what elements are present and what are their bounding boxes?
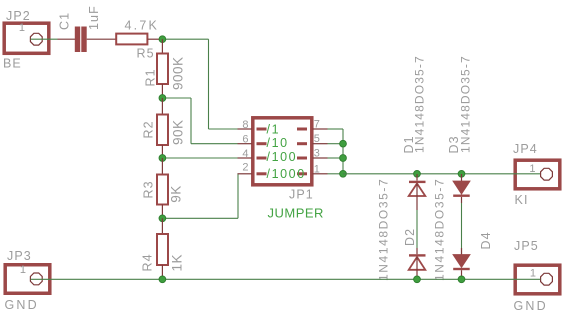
svg-text:JUMPER: JUMPER [268,206,324,221]
svg-text:1N4148DO35-7: 1N4148DO35-7 [459,55,473,153]
svg-text:1N4148DO35-7: 1N4148DO35-7 [433,178,447,281]
svg-text:JP5: JP5 [514,239,539,253]
svg-text:6: 6 [242,134,248,146]
junction pin3 row [340,155,347,162]
svg-text:5: 5 [314,133,320,145]
wire JP2 pin to C1 [31,38,58,40]
svg-text:1N4148DO35-7: 1N4148DO35-7 [413,55,427,153]
diode D4 [453,248,470,279]
svg-text:1: 1 [19,22,25,34]
svg-text:R3: R3 [142,180,156,198]
svg-text:2: 2 [242,161,248,173]
svg-text:1: 1 [20,264,26,276]
svg-text:/1000: /1000 [267,167,306,181]
connector JP2 [4,23,49,53]
resistor R5 [116,34,162,45]
svg-text:JP2: JP2 [6,9,31,23]
junction D3 top [458,170,465,177]
svg-text:/100: /100 [267,150,298,164]
svg-text:4.7K: 4.7K [125,19,160,33]
jumper JP1 body [253,118,312,185]
junction D1 top [414,170,421,177]
JP1 pin 6 [238,134,267,146]
svg-text:7: 7 [314,118,320,130]
connector JP3 [5,265,50,294]
wire JP1 pins 7,5,3,1 common bus [328,129,344,174]
diode D1 [409,174,426,210]
svg-text:BE: BE [3,57,22,71]
junction pin5 row [340,140,347,147]
svg-text:8: 8 [242,119,248,131]
wire D1 to D2 [416,210,418,248]
JP1 pin 5 [297,133,328,145]
svg-text:1: 1 [529,163,535,175]
svg-text:C1: C1 [58,12,72,30]
svg-text:D4: D4 [479,231,493,249]
connector JP5 [515,265,560,294]
wire node A to JP1 pin 8 [162,39,237,129]
resistor R3 [157,158,168,218]
svg-text:1: 1 [530,268,536,280]
resistor R1 [157,39,168,98]
JP1 pin 7 [297,118,328,130]
svg-text:90K: 90K [171,119,186,145]
diode D3 [453,174,470,203]
svg-text:JP1: JP1 [289,188,314,202]
JP1 pin 2 [238,161,267,175]
svg-text:GND: GND [514,299,548,313]
wire output rail to JP4 [343,173,540,175]
svg-text:/10: /10 [267,136,289,150]
svg-text:R4: R4 [141,253,155,271]
svg-text:4: 4 [242,148,248,160]
resistor R2 [157,98,168,158]
connector JP4 [515,160,560,189]
svg-text:900K: 900K [171,56,186,90]
node B junction (R1/R2) [159,95,166,102]
node D junction (R3/R4) [159,215,166,222]
svg-text:1K: 1K [170,254,185,272]
wire D3 to D4 [461,203,463,254]
svg-text:1: 1 [314,163,320,175]
JP1 pin 3 [297,148,328,160]
svg-text:JP4: JP4 [513,142,538,156]
junction pin1 row [340,170,347,177]
JP1 pin 8 [238,119,267,131]
node C junction (R2/R3) [159,155,166,162]
svg-text:R1: R1 [144,68,158,86]
svg-text:JP3: JP3 [7,249,32,263]
diode D2 [409,248,426,279]
svg-text:D2: D2 [403,228,417,246]
C1 left pin lead [58,38,76,40]
junction R4 bottom [159,276,166,283]
svg-text:R2: R2 [142,120,156,138]
node A junction (R5/R1) [159,36,166,43]
svg-text:3: 3 [314,148,320,160]
svg-text:1uF: 1uF [87,5,101,30]
wire ground rail JP3 to JP5 [31,278,541,280]
resistor R4 [157,218,168,279]
wire node B to JP1 pin 6 [162,98,237,144]
junction D4 bottom [458,276,465,283]
wire node C to JP1 pin 4 [162,157,237,159]
svg-text:1N4148DO35-7: 1N4148DO35-7 [377,178,391,281]
svg-text:GND: GND [5,298,39,312]
wire node D to JP1 pin 2 [162,174,238,219]
capacitor C1 [75,27,116,53]
JP1 pin 4 [238,148,267,160]
svg-text:/1: /1 [267,123,281,137]
junction D2 bottom [414,276,421,283]
svg-text:KI: KI [515,193,529,207]
svg-text:9K: 9K [169,185,184,203]
svg-text:R5: R5 [137,47,155,61]
JP1 pin 1 [297,163,328,175]
